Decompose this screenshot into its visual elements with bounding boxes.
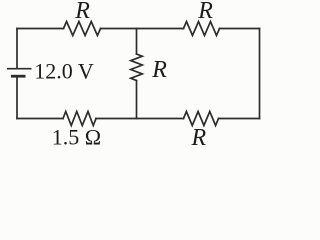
wire bottom-middle segment (R4 to node B) <box>96 118 184 120</box>
resistor R2 (top-right, value R) <box>184 22 220 36</box>
wire bottom-left segment (battery bottom to R4) <box>17 118 63 120</box>
wire left side upper (top rail to battery + plate) <box>16 29 18 69</box>
svg-text:R: R <box>191 125 207 151</box>
battery V1 positive plate (long) <box>7 68 32 70</box>
resistor R4 (bottom-left, value 1.5 ohm) <box>63 112 96 126</box>
resistor R5 (bottom-right, value R) <box>184 112 219 126</box>
resistor R3 (middle branch, value R) <box>131 54 143 81</box>
wire top-right segment (R2 to right rail) <box>220 28 260 30</box>
wire top-middle segment (R1 to node A) <box>101 28 184 30</box>
resistor R1 (top-left, value R) <box>64 22 101 36</box>
svg-text:R: R <box>74 0 90 24</box>
svg-text:R: R <box>151 57 167 83</box>
svg-text:12.0 V: 12.0 V <box>34 59 94 84</box>
svg-text:1.5 Ω: 1.5 Ω <box>52 125 101 150</box>
node A: wire from top rail junction down to R3 <box>136 29 138 55</box>
wire bottom-right segment (R5 to right rail) <box>219 118 260 120</box>
svg-text:R: R <box>197 0 213 24</box>
wire top-left segment (battery top to R1) <box>17 28 64 30</box>
node B: wire from R3 down to bottom rail junction <box>136 81 138 119</box>
wire right side rail <box>259 29 261 119</box>
battery V1 negative plate (short, thick) <box>11 75 26 78</box>
wire left side lower (battery - plate to bottom rail) <box>16 77 18 119</box>
